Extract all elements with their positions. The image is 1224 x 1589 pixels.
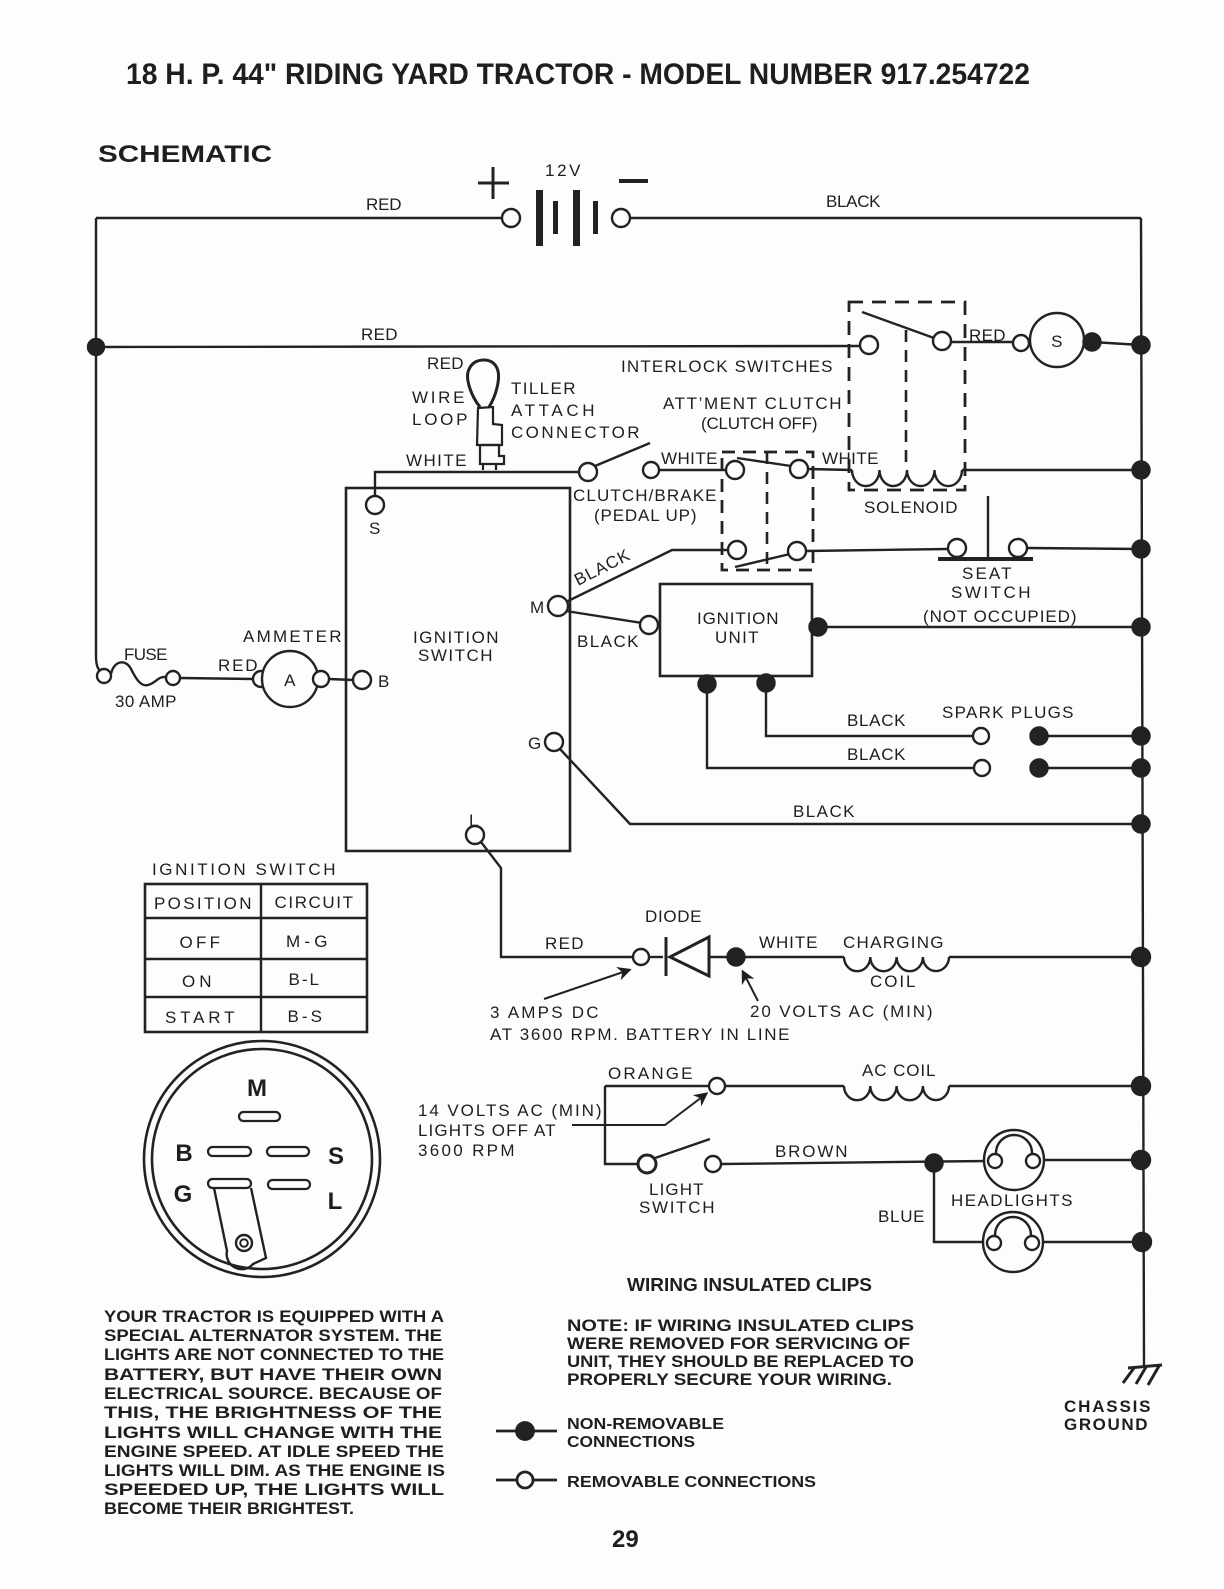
spark plug 2 gap electrode xyxy=(974,760,990,776)
svg-text:CONNECTOR: CONNECTOR xyxy=(511,423,640,442)
svg-text:ENGINE SPEED. AT IDLE SPEED TH: ENGINE SPEED. AT IDLE SPEED THE xyxy=(104,1442,444,1461)
svg-text:AMMETER: AMMETER xyxy=(243,627,342,646)
removable connection at battery + xyxy=(502,209,520,227)
svg-text:YOUR TRACTOR IS EQUIPPED WITH: YOUR TRACTOR IS EQUIPPED WITH A xyxy=(104,1307,444,1326)
svg-text:SPECIAL ALTERNATOR SYSTEM. THE: SPECIAL ALTERNATOR SYSTEM. THE xyxy=(104,1326,442,1345)
svg-text:IGNITION: IGNITION xyxy=(413,628,499,647)
node junction right bus ac coil row xyxy=(1132,1077,1150,1095)
svg-text:COIL: COIL xyxy=(870,972,916,991)
node junction right bus spark1 row xyxy=(1133,728,1150,745)
chassis ground xyxy=(1123,1365,1162,1385)
label WIRE LOOP xyxy=(412,388,468,429)
label CLUTCH/BRAKE (PEDAL UP) xyxy=(573,486,717,525)
svg-text:THIS, THE BRIGHTNESS OF TH: THIS, THE BRIGHTNESS OF THE xyxy=(104,1403,442,1422)
node junction left bus xyxy=(88,339,104,355)
svg-text:WERE REMOVED FOR SERVICING: WERE REMOVED FOR SERVICING OF xyxy=(567,1334,910,1353)
label SEAT SWITCH (NOT OCCUPIED) xyxy=(923,564,1077,626)
svg-text:18 H. P. 44" RIDING YARD TRACT: 18 H. P. 44" RIDING YARD TRACTOR - MODEL… xyxy=(126,58,1030,91)
wire ignition L to diode row xyxy=(481,842,633,957)
svg-text:LIGHT: LIGHT xyxy=(649,1180,704,1199)
label 14 VOLTS AC (MIN) LIGHTS OFF AT 3600 RPM xyxy=(418,1101,602,1160)
att'ment clutch dashed enclosure xyxy=(722,452,813,570)
non-removable connection brown/blue tee xyxy=(926,1155,943,1172)
wire headlight 1 to right bus xyxy=(1044,1159,1141,1161)
svg-text:RED: RED xyxy=(366,195,402,214)
svg-text:SOLENOID: SOLENOID xyxy=(864,498,958,517)
svg-text:TILLER: TILLER xyxy=(511,379,576,398)
svg-text:LIGHTS WILL CHANGE WITH TH: LIGHTS WILL CHANGE WITH THE xyxy=(104,1423,442,1442)
svg-text:BLACK: BLACK xyxy=(577,632,639,651)
svg-text:(PEDAL UP): (PEDAL UP) xyxy=(594,506,697,525)
svg-text:ATT’MENT CLUTCH: ATT’MENT CLUTCH xyxy=(663,394,842,413)
legend removable connections xyxy=(496,1472,557,1488)
removable connection at starter xyxy=(1013,335,1029,351)
svg-text:SWITCH: SWITCH xyxy=(418,646,493,665)
wire spark plug 2 to right bus xyxy=(1039,767,1141,769)
svg-text:M: M xyxy=(247,1075,267,1102)
svg-text:RED: RED xyxy=(361,325,398,344)
svg-text:SEAT: SEAT xyxy=(962,564,1012,583)
ignition switch connector rear view outer ring xyxy=(144,1041,380,1277)
diode D1 xyxy=(666,937,709,976)
key hub rings xyxy=(236,1235,252,1251)
svg-text:SPEEDED UP, THE LIGHTS WIL: SPEEDED UP, THE LIGHTS WILL xyxy=(104,1480,444,1499)
battery BT1 12V xyxy=(536,190,598,246)
svg-text:INTERLOCK SWITCHES: INTERLOCK SWITCHES xyxy=(621,357,833,376)
label TILLER ATTACH CONNECTOR xyxy=(511,379,640,442)
svg-text:IGNITION: IGNITION xyxy=(697,609,779,628)
seat switch contact right xyxy=(1009,539,1027,557)
svg-text:HEADLIGHTS: HEADLIGHTS xyxy=(951,1191,1073,1210)
svg-text:ON: ON xyxy=(182,972,212,991)
wire lower switch to seat switch xyxy=(806,549,948,551)
headlight 1 xyxy=(984,1130,1044,1190)
svg-text:WHITE: WHITE xyxy=(406,451,467,470)
label 3 AMPS DC AT 3600 RPM xyxy=(490,1003,790,1044)
spark plug 2 ground electrode xyxy=(1031,760,1048,777)
svg-text:WHITE: WHITE xyxy=(822,449,879,468)
svg-text:A: A xyxy=(284,671,296,690)
wire ORANGE ac coil row xyxy=(605,1085,709,1087)
svg-text:3600 RPM: 3600 RPM xyxy=(418,1141,515,1160)
legend non-removable connections xyxy=(496,1423,557,1440)
wire WHITE solenoid coil to right bus xyxy=(962,469,1141,471)
svg-text:UNIT: UNIT xyxy=(715,628,759,647)
solenoid coil winding xyxy=(852,470,962,486)
annotation arrow to ac coil terminal xyxy=(572,1094,706,1125)
ac coil xyxy=(844,1086,949,1100)
non-removable connection ignition unit bottom left xyxy=(699,676,716,693)
wire right bus vertical xyxy=(1141,218,1144,1366)
svg-text:BATTERY, BUT HAVE THEIR OW: BATTERY, BUT HAVE THEIR OWN xyxy=(104,1365,442,1384)
ignition unit box U1 xyxy=(660,584,812,676)
ignition switch box xyxy=(346,488,570,851)
wire BROWN light switch to headlight 1 xyxy=(721,1161,988,1164)
svg-text:M-G: M-G xyxy=(286,932,328,951)
svg-text:BLUE: BLUE xyxy=(878,1207,925,1226)
interlock switch starter contact left xyxy=(860,336,878,354)
tiller attach connector wire loop xyxy=(468,360,499,407)
svg-text:SCHEMATIC: SCHEMATIC xyxy=(98,141,272,168)
clutch/brake lower switch blade xyxy=(735,554,790,567)
svg-text:(CLUTCH OFF): (CLUTCH OFF) xyxy=(701,414,818,433)
removable connection ignition unit input xyxy=(640,616,658,634)
spark plug 1 ground electrode xyxy=(1031,728,1048,745)
wire spark plug 1 to right bus xyxy=(1039,735,1141,737)
label CHARGING COIL xyxy=(843,933,944,991)
svg-text:DIODE: DIODE xyxy=(645,907,702,926)
svg-text:REMOVABLE CONNECTIONS: REMOVABLE CONNECTIONS xyxy=(567,1474,816,1491)
wire starter to right bus xyxy=(1092,342,1141,345)
att'ment clutch dashed divider xyxy=(766,452,769,570)
wire ignition unit to right bus xyxy=(818,626,1141,628)
svg-text:WHITE: WHITE xyxy=(759,933,818,952)
interlock switch starter blade xyxy=(862,312,934,338)
wire RED solenoid to starter motor xyxy=(951,341,1030,343)
svg-text:G: G xyxy=(174,1181,193,1208)
wire ammeter to terminal B xyxy=(329,679,353,680)
pin slot M xyxy=(239,1112,280,1121)
node junction right bus ignition unit row xyxy=(1133,619,1150,636)
svg-text:S: S xyxy=(1051,332,1063,351)
node junction right bus spark2 row xyxy=(1133,760,1150,777)
node junction right bus red row xyxy=(1133,337,1150,354)
headlight 2 xyxy=(983,1212,1043,1272)
svg-text:B-S: B-S xyxy=(288,1007,323,1026)
wire BLACK battery- to right bus xyxy=(630,217,1141,219)
svg-text:B-L: B-L xyxy=(289,970,320,989)
pin slot S xyxy=(267,1147,309,1156)
light switch blade xyxy=(655,1139,710,1158)
att'ment clutch switch contact right xyxy=(790,460,808,478)
wire RED fuse to ammeter xyxy=(180,678,254,679)
ammeter A xyxy=(253,671,269,687)
wire BLACK to spark plug 1 xyxy=(766,683,973,736)
terminal S xyxy=(366,496,384,514)
svg-text:M: M xyxy=(530,598,545,617)
label LIGHT SWITCH xyxy=(639,1180,715,1217)
svg-text:WIRING INSULATED CLIPS: WIRING INSULATED CLIPS xyxy=(627,1275,872,1295)
svg-text:12V: 12V xyxy=(545,161,581,180)
seat switch bar xyxy=(938,557,1033,561)
non-removable connection ignition unit right xyxy=(810,619,827,636)
wire BLUE tee down to headlight 2 xyxy=(934,1163,987,1242)
node junction right bus solenoid row xyxy=(1133,462,1150,479)
battery minus terminal symbol xyxy=(619,179,648,183)
pin slot G xyxy=(208,1179,251,1188)
removable connection diode anode xyxy=(633,949,649,965)
seat switch plunger xyxy=(987,496,989,559)
svg-text:NON-REMOVABLE: NON-REMOVABLE xyxy=(567,1416,724,1433)
fuse F1 30 AMP xyxy=(97,669,111,683)
clutch/brake lower switch contact right xyxy=(788,542,806,560)
svg-text:SWITCH: SWITCH xyxy=(639,1198,715,1217)
svg-text:14 VOLTS AC (MIN): 14 VOLTS AC (MIN) xyxy=(418,1101,602,1120)
svg-text:L: L xyxy=(328,1188,343,1215)
key wedge pointer xyxy=(214,1188,266,1269)
svg-text:OFF: OFF xyxy=(180,933,221,952)
wire RED battery+ to left bus xyxy=(96,217,502,219)
svg-text:SWITCH: SWITCH xyxy=(951,583,1031,602)
svg-text:30 AMP: 30 AMP xyxy=(115,692,177,711)
spark plug 1 gap electrode xyxy=(973,728,989,744)
annotation arrow to diode anode xyxy=(544,970,629,999)
svg-text:LOOP: LOOP xyxy=(412,410,468,429)
svg-text:POSITION: POSITION xyxy=(154,894,252,913)
svg-text:CONNECTIONS: CONNECTIONS xyxy=(567,1434,695,1451)
label CHASSIS GROUND xyxy=(1064,1397,1151,1434)
svg-text:B: B xyxy=(378,672,390,691)
node junction right bus headlight1 row xyxy=(1132,1151,1150,1169)
svg-text:GROUND: GROUND xyxy=(1064,1415,1148,1434)
wire WHITE to charging coil xyxy=(736,956,844,958)
svg-text:L: L xyxy=(469,811,479,830)
svg-text:RED: RED xyxy=(427,354,464,373)
wire WHITE att'ment clutch to solenoid coil xyxy=(808,469,852,470)
label IGNITION SWITCH xyxy=(413,628,499,665)
ignition switch position table xyxy=(145,884,367,1032)
clutch/brake switch contact right xyxy=(643,462,659,478)
connector inner ring xyxy=(152,1049,372,1269)
battery plus terminal symbol xyxy=(478,167,509,199)
node junction right bus headlight2 row xyxy=(1133,1233,1151,1251)
svg-text:START: START xyxy=(165,1008,235,1027)
terminal L xyxy=(466,826,484,844)
pin slot B xyxy=(208,1147,251,1156)
svg-text:ELECTRICAL SOURCE. BECAUSE: ELECTRICAL SOURCE. BECAUSE OF xyxy=(104,1384,442,1403)
light switch contact left xyxy=(638,1155,656,1173)
charging coil xyxy=(844,957,949,971)
removable connection ac coil xyxy=(709,1078,725,1094)
wire charging coil to right bus xyxy=(949,956,1141,958)
svg-text:LIGHTS OFF AT: LIGHTS OFF AT xyxy=(418,1121,556,1140)
svg-text:WHITE: WHITE xyxy=(661,449,718,468)
svg-text:BLACK: BLACK xyxy=(847,711,906,730)
node junction right bus seat row xyxy=(1133,541,1150,558)
svg-text:BLACK: BLACK xyxy=(793,802,855,821)
wire clutch-brake to att'ment clutch switch xyxy=(659,469,727,471)
svg-text:BLACK: BLACK xyxy=(826,192,881,211)
interlock switch starter contact right xyxy=(933,332,951,350)
svg-text:BLACK: BLACK xyxy=(847,745,906,764)
svg-text:ORANGE: ORANGE xyxy=(608,1064,693,1083)
non-removable connection starter to bus xyxy=(1084,334,1101,351)
svg-text:WIRE: WIRE xyxy=(412,388,465,407)
svg-text:S: S xyxy=(369,519,381,538)
svg-text:CHARGING: CHARGING xyxy=(843,933,944,952)
svg-text:G: G xyxy=(528,734,542,753)
att'ment clutch switch contact left xyxy=(726,461,744,479)
svg-text:B: B xyxy=(175,1140,192,1167)
att'ment clutch switch blade xyxy=(737,458,791,466)
svg-text:NOTE: IF WIRING INSULATED: NOTE: IF WIRING INSULATED CLIPS xyxy=(567,1316,914,1335)
wire seat switch to right bus xyxy=(1027,548,1141,549)
svg-text:UNIT, THEY SHOULD BE REPLACED: UNIT, THEY SHOULD BE REPLACED TO xyxy=(567,1352,914,1371)
node junction right bus charging row xyxy=(1132,948,1150,966)
svg-text:AT 3600 RPM. BATTERY IN LINE: AT 3600 RPM. BATTERY IN LINE xyxy=(490,1025,790,1044)
svg-text:RED: RED xyxy=(545,934,584,953)
wire orange row down to light switch xyxy=(605,1086,638,1164)
svg-text:AC COIL: AC COIL xyxy=(862,1061,936,1080)
wire BLACK ignition G to right bus xyxy=(560,749,1141,824)
wire left bus vertical xyxy=(96,218,103,672)
terminal B xyxy=(353,671,371,689)
svg-text:LIGHTS WILL DIM. AS THE ENGINE: LIGHTS WILL DIM. AS THE ENGINE IS xyxy=(104,1461,445,1480)
alternator note paragraph xyxy=(104,1307,445,1518)
svg-text:(NOT OCCUPIED): (NOT OCCUPIED) xyxy=(923,607,1077,626)
svg-text:FUSE: FUSE xyxy=(124,645,168,664)
wire BLACK ignition M to ignition unit xyxy=(566,611,642,623)
svg-text:S: S xyxy=(328,1143,344,1170)
svg-text:PROPERLY SECURE YOUR WIRING.: PROPERLY SECURE YOUR WIRING. xyxy=(567,1370,892,1389)
svg-text:CLUTCH/BRAKE: CLUTCH/BRAKE xyxy=(573,486,717,505)
terminal M xyxy=(548,596,568,616)
svg-text:LIGHTS ARE NOT CONNECTED TO TH: LIGHTS ARE NOT CONNECTED TO THE xyxy=(104,1345,444,1364)
tiller attach connector body xyxy=(477,407,502,445)
wire ac coil to right bus xyxy=(949,1085,1141,1087)
wire diode to junction xyxy=(649,956,663,958)
starter motor S xyxy=(1030,313,1084,367)
light switch contact right xyxy=(705,1156,721,1172)
removable connection at battery - xyxy=(612,209,630,227)
svg-text:3 AMPS DC: 3 AMPS DC xyxy=(490,1003,599,1022)
svg-text:IGNITION SWITCH: IGNITION SWITCH xyxy=(152,860,336,879)
wire to ac coil xyxy=(725,1085,844,1087)
clutch/brake switch blade xyxy=(595,443,650,466)
svg-text:BROWN: BROWN xyxy=(775,1142,848,1161)
svg-text:29: 29 xyxy=(612,1526,639,1553)
seat switch contact left xyxy=(948,539,966,557)
svg-text:BECOME THEIR BRIGHTEST.: BECOME THEIR BRIGHTEST. xyxy=(104,1499,354,1518)
svg-text:CHASSIS: CHASSIS xyxy=(1064,1397,1151,1416)
annotation arrow to 20V point xyxy=(743,972,758,1001)
solenoid dashed enclosure xyxy=(849,302,965,490)
wire BLACK ignition M to lower switch xyxy=(566,550,728,602)
non-removable connection 20V point xyxy=(728,949,745,966)
node junction right bus G row xyxy=(1133,816,1150,833)
svg-text:20 VOLTS AC (MIN): 20 VOLTS AC (MIN) xyxy=(750,1002,933,1021)
label ATT'MENT CLUTCH (CLUTCH OFF) xyxy=(663,394,842,433)
wire WHITE ignition S to clutch-brake switch xyxy=(375,472,580,496)
pin slot L xyxy=(268,1180,310,1189)
svg-text:RED: RED xyxy=(218,656,258,675)
non-removable connection ignition unit bottom right xyxy=(758,675,775,692)
svg-text:SPARK PLUGS: SPARK PLUGS xyxy=(942,703,1074,722)
terminal G xyxy=(545,733,563,751)
clutch/brake lower switch contact left xyxy=(728,541,746,559)
svg-text:CIRCUIT: CIRCUIT xyxy=(275,893,354,912)
wire BLACK to spark plug 2 xyxy=(707,684,974,768)
wiring clips note paragraph xyxy=(567,1316,914,1389)
wire headlight 2 to right bus xyxy=(1043,1241,1142,1243)
svg-text:RED: RED xyxy=(969,326,1006,345)
solenoid plunger dashed link xyxy=(905,330,908,466)
clutch/brake switch contact left xyxy=(579,463,597,481)
wire RED left bus to interlock switch xyxy=(96,346,861,347)
svg-text:ATTACH: ATTACH xyxy=(511,401,595,420)
